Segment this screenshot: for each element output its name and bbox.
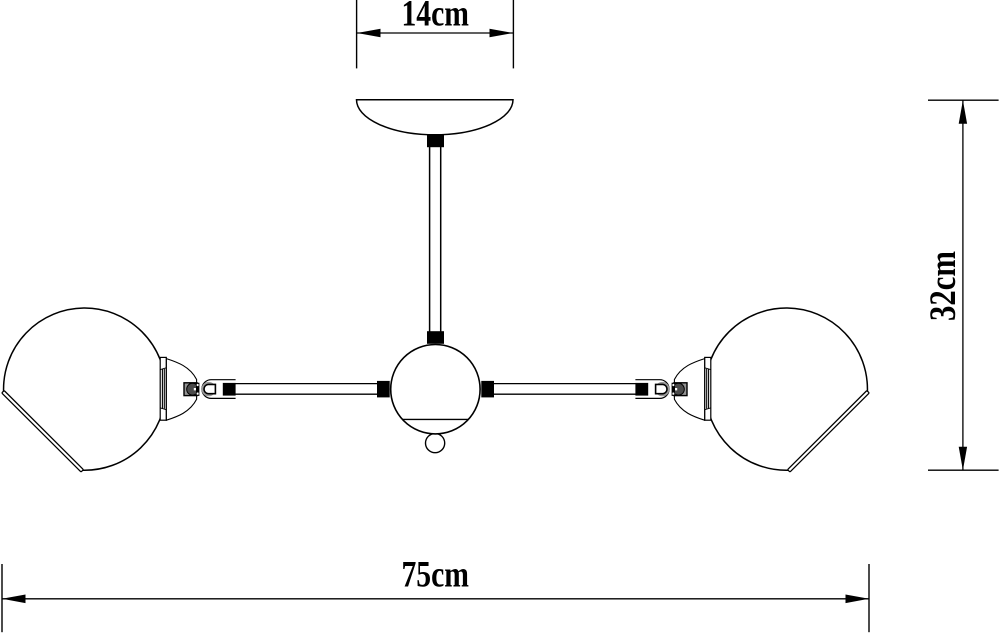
svg-text:32cm: 32cm: [922, 251, 963, 321]
svg-text:75cm: 75cm: [401, 553, 469, 594]
svg-text:14cm: 14cm: [401, 0, 469, 34]
